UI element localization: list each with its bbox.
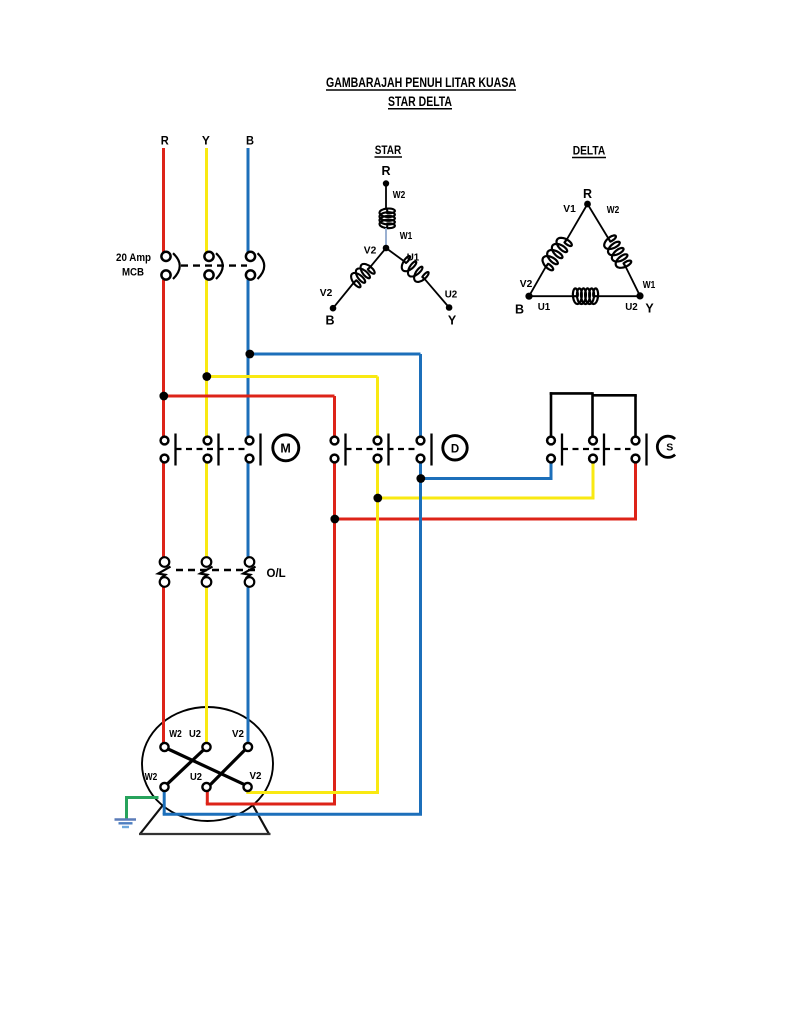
node R (phase label)	[161, 133, 169, 147]
wire Y phase main (yellow)	[205, 148, 208, 743]
earth wire (green)	[125, 796, 159, 818]
wire winding to node Y (star)	[425, 279, 449, 307]
node Y (star)	[446, 304, 457, 327]
junction R tap	[159, 392, 168, 401]
svg-text:D: D	[451, 443, 459, 455]
junction yellow branch to S	[373, 494, 382, 503]
wire yellow branch to contactor S	[378, 462, 595, 498]
label V2 near star point	[364, 245, 377, 257]
ground symbol	[115, 820, 137, 828]
label W2 (delta)	[607, 204, 620, 216]
svg-text:V1: V1	[563, 203, 576, 215]
label U1 (star)	[407, 252, 420, 264]
wire Y tap to contactor D (yellow)	[207, 377, 378, 437]
wire blue branch to contactor S	[421, 462, 553, 478]
svg-text:U1: U1	[538, 301, 551, 313]
svg-text:B: B	[515, 303, 524, 317]
label U2 (star right end)	[445, 289, 458, 301]
label V2 bottom terminal	[250, 771, 262, 782]
svg-text:W2: W2	[607, 204, 620, 216]
junction red branch to S	[330, 515, 339, 524]
node Y (phase label)	[202, 133, 210, 147]
wire winding to node Y (delta)	[626, 267, 640, 296]
motor terminal W2 (top)	[160, 743, 168, 751]
node R (star)	[381, 164, 390, 187]
wire R phase main (red)	[162, 148, 165, 743]
label V2 top terminal	[232, 729, 244, 740]
motor terminal W2 (bottom)	[160, 783, 168, 791]
wire R to left winding (delta)	[567, 204, 588, 239]
wire bottom winding to node Y (delta)	[597, 295, 640, 297]
label U1 (delta)	[538, 301, 551, 313]
label V2 (delta)	[520, 278, 533, 290]
svg-text:W1: W1	[400, 230, 413, 242]
svg-text:B: B	[325, 314, 334, 328]
winding coil W2-W1 (star)	[380, 209, 395, 229]
svg-text:M: M	[280, 441, 290, 455]
svg-text:STAR: STAR	[375, 143, 402, 157]
winding coil U1 branch (star right)	[402, 256, 429, 282]
winding coil V1-V2 (delta left)	[543, 238, 572, 270]
svg-text:R: R	[381, 164, 390, 178]
wire blue contactor D to motor terminal W2	[163, 462, 422, 814]
wire star point to winding U1 (right)	[386, 248, 404, 261]
label U2 bottom terminal	[190, 772, 202, 783]
wire W1 to star point (light blue)	[385, 228, 387, 245]
svg-text:R: R	[583, 187, 592, 201]
star point node	[383, 245, 390, 252]
svg-text:Y: Y	[448, 314, 457, 328]
winding coil U1-U2 (delta bottom)	[573, 288, 598, 304]
winding coil W2-W1 (delta right)	[604, 235, 631, 267]
svg-text:V2: V2	[520, 278, 533, 290]
wire yellow contactor D to motor terminal V2	[246, 462, 379, 792]
wire B to bottom winding (delta)	[529, 295, 574, 297]
wire R to winding W2 (star)	[385, 184, 387, 210]
motor terminal U2 (top)	[202, 743, 210, 751]
star connection diagram heading	[375, 143, 403, 157]
label W1 (star)	[400, 230, 413, 242]
svg-text:R: R	[161, 133, 169, 147]
label W1 (delta)	[643, 279, 656, 291]
wire red branch to contactor S	[335, 462, 638, 519]
label W2 top terminal	[169, 729, 182, 740]
node B (delta)	[515, 293, 533, 317]
wire winding to node B (star)	[333, 283, 354, 308]
node B (star)	[325, 305, 336, 328]
svg-text:V2: V2	[232, 729, 244, 740]
svg-text:20 Amp: 20 Amp	[116, 252, 151, 264]
overload relay O/L	[158, 557, 258, 587]
label O/L	[267, 568, 286, 580]
wire star point to winding V2 (left)	[371, 248, 386, 267]
wire B tap to contactor D (blue)	[248, 354, 421, 436]
svg-text:W2: W2	[393, 189, 406, 201]
svg-text:MCB: MCB	[122, 267, 144, 279]
svg-text:U2: U2	[445, 289, 458, 301]
svg-text:Y: Y	[202, 133, 210, 147]
label W2 bottom terminal	[145, 772, 158, 783]
label U2 top terminal	[189, 729, 201, 740]
motor terminal U2 (bottom)	[202, 783, 210, 791]
motor M1 terminal box (ellipse)	[142, 707, 273, 821]
svg-text:U2: U2	[625, 301, 638, 313]
label 20 Amp MCB	[116, 252, 151, 279]
wire star-point bus above contactor S	[550, 392, 637, 436]
wire red contactor D to motor terminal U2	[206, 462, 336, 804]
label U2 (delta)	[625, 301, 638, 313]
wire B phase main (blue)	[247, 148, 250, 743]
svg-text:B: B	[246, 133, 254, 147]
svg-text:V2: V2	[364, 245, 377, 257]
svg-text:STAR DELTA: STAR DELTA	[388, 94, 452, 109]
svg-text:W2: W2	[169, 729, 182, 740]
contactor M (main)	[161, 434, 299, 466]
svg-text:O/L: O/L	[267, 568, 286, 580]
svg-text:Y: Y	[645, 302, 654, 316]
svg-text:W2: W2	[145, 772, 158, 783]
delta connection diagram heading	[572, 144, 606, 158]
node B (phase label)	[246, 133, 254, 147]
node R (delta)	[583, 187, 592, 207]
label V1 (delta)	[563, 203, 576, 215]
motor terminal link U2-W2	[168, 749, 206, 784]
motor terminal V2 (top)	[244, 743, 252, 751]
junction B tap	[245, 350, 254, 359]
svg-text:S: S	[666, 442, 673, 454]
title	[326, 74, 516, 109]
contactor S (star)	[547, 434, 675, 466]
motor terminal V2 (bottom)	[244, 783, 252, 791]
motor terminal link V2-U2	[209, 749, 246, 787]
svg-text:GAMBARAJAH PENUH LITAR KUASA: GAMBARAJAH PENUH LITAR KUASA	[326, 74, 516, 90]
junction Y tap	[202, 372, 211, 381]
svg-text:V2: V2	[320, 287, 333, 299]
svg-text:W1: W1	[643, 279, 656, 291]
node Y (delta)	[636, 292, 654, 315]
winding coil V2 branch (star left)	[351, 264, 375, 287]
label V2 (star left end)	[320, 287, 333, 299]
contactor D (delta)	[331, 434, 468, 466]
motor stand (triangle)	[139, 768, 271, 834]
svg-text:U2: U2	[190, 772, 202, 783]
wire R tap to contactor D (red)	[164, 396, 335, 436]
circuit breaker MCB 20 Amp	[161, 252, 264, 280]
junction blue branch to S	[416, 474, 425, 483]
svg-text:U2: U2	[189, 729, 201, 740]
label W2 (star)	[393, 189, 406, 201]
motor terminal link W2-V2	[167, 749, 246, 786]
svg-text:DELTA: DELTA	[573, 144, 606, 158]
svg-text:V2: V2	[250, 771, 262, 782]
wire winding to node B (delta)	[529, 267, 546, 296]
wire R to right winding (delta)	[588, 204, 609, 238]
